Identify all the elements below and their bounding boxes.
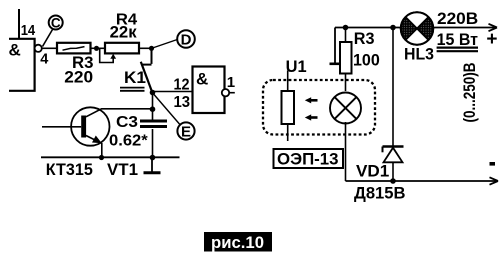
zener diode VD1 (Д815В) bbox=[354, 28, 406, 203]
junction node VD1 top bbox=[390, 25, 396, 31]
ground bbox=[144, 158, 161, 173]
inversion bubble pin 4 bbox=[35, 45, 42, 52]
photoresistor in U1 bbox=[282, 71, 295, 142]
lamp inside U1 bbox=[330, 93, 361, 124]
wire gate output to R3 bbox=[42, 47, 58, 49]
plus terminal label bbox=[486, 29, 497, 50]
svg-text:0.62*: 0.62* bbox=[109, 133, 148, 150]
svg-text:Д815В: Д815В bbox=[354, 184, 406, 203]
top rail wire 220V bbox=[335, 24, 497, 31]
double underline bbox=[437, 48, 478, 52]
svg-text:R3: R3 bbox=[354, 29, 375, 48]
figure caption рис.10 bbox=[204, 232, 272, 252]
relay contact K1 bbox=[120, 48, 153, 93]
svg-text:рис.10: рис.10 bbox=[211, 233, 264, 252]
pin label 1 bbox=[227, 74, 235, 91]
bottom rail wire minus bbox=[346, 177, 499, 184]
svg-text:U1: U1 bbox=[286, 57, 307, 76]
junction node C3 bbox=[150, 155, 156, 161]
wire gate output bbox=[229, 92, 235, 94]
svg-text:220В: 220В bbox=[437, 9, 478, 28]
junction node bbox=[149, 46, 154, 51]
svg-text:22к: 22к bbox=[110, 24, 138, 42]
junction node bbox=[94, 46, 99, 51]
svg-text:15 Вт: 15 Вт bbox=[437, 30, 478, 49]
svg-text:&: & bbox=[196, 70, 208, 89]
label 15 Вт bbox=[437, 30, 478, 49]
inversion bubble pin 1 bbox=[222, 89, 229, 96]
svg-text:КТ315: КТ315 bbox=[46, 160, 93, 179]
svg-text:C3: C3 bbox=[116, 114, 138, 131]
optocoupler U1 dashed box bbox=[263, 57, 375, 135]
junction node collector bbox=[150, 106, 156, 112]
svg-text:VT1: VT1 bbox=[107, 160, 138, 179]
wire to node E bbox=[154, 95, 180, 126]
potentiometer R4 (22k) bbox=[100, 11, 139, 62]
pin label 13 bbox=[174, 94, 191, 111]
junction node VD1 bottom bbox=[390, 178, 396, 184]
wire R3 to R4 bbox=[91, 47, 106, 49]
svg-text:14: 14 bbox=[21, 23, 36, 39]
node D bbox=[177, 30, 195, 48]
svg-text:C: C bbox=[51, 16, 61, 31]
svg-text:1: 1 bbox=[227, 74, 235, 91]
svg-text:E: E bbox=[181, 124, 191, 141]
logic gate DD1.2 (&) bbox=[193, 67, 225, 114]
svg-text:HL3: HL3 bbox=[404, 45, 434, 64]
bottom rail wire bbox=[41, 156, 180, 158]
pin label 4 bbox=[40, 52, 48, 68]
label HL3 bbox=[404, 45, 434, 64]
junction node R3 top bbox=[343, 25, 349, 31]
svg-text:4: 4 bbox=[40, 52, 48, 68]
capacitor C3 (0.62) bbox=[109, 114, 167, 150]
label 220В bbox=[437, 9, 478, 28]
wire to node D bbox=[153, 40, 178, 49]
svg-text:K1: K1 bbox=[124, 69, 146, 87]
resistor R3 (100) bbox=[340, 28, 380, 92]
label box ОЭП-13 bbox=[274, 149, 344, 169]
svg-text:VD1: VD1 bbox=[356, 162, 389, 181]
lamp HL3 bbox=[401, 12, 433, 45]
wire pin 14 input bbox=[18, 9, 20, 39]
junction node K1/gate/C3 bbox=[150, 90, 156, 96]
light arrows bbox=[305, 97, 318, 120]
svg-text:220: 220 bbox=[64, 68, 93, 87]
node C bbox=[43, 16, 63, 47]
svg-text:D: D bbox=[181, 32, 192, 49]
pin label 14 bbox=[21, 23, 36, 39]
wire K1 to gate inputs bbox=[153, 91, 193, 93]
svg-text:&: & bbox=[9, 41, 21, 60]
ground stub top-left of right section bbox=[330, 28, 341, 64]
wire C3 to rail bbox=[152, 129, 154, 158]
minus terminal label bbox=[490, 162, 496, 166]
wire R4 to K1 node bbox=[139, 47, 153, 49]
pin label 12 bbox=[174, 77, 190, 94]
wire lamp to bottom rail bbox=[345, 122, 347, 181]
svg-text:+: + bbox=[486, 29, 497, 50]
svg-text:ОЭП-13: ОЭП-13 bbox=[277, 150, 339, 169]
logic gate DD1.1 (&) left, clipped bbox=[9, 39, 35, 91]
wire down to C3 bbox=[152, 93, 154, 121]
svg-text:(0...250)В: (0...250)В bbox=[460, 63, 479, 123]
svg-text:100: 100 bbox=[353, 51, 380, 70]
junction node emitter bbox=[99, 155, 104, 160]
label (0...250)В rotated bbox=[460, 63, 479, 123]
node E bbox=[177, 122, 194, 140]
transistor VT1 (КТ315) bbox=[42, 107, 153, 179]
svg-text:12: 12 bbox=[174, 77, 190, 94]
svg-text:13: 13 bbox=[174, 94, 191, 111]
resistor R3 (220) bbox=[57, 43, 94, 87]
